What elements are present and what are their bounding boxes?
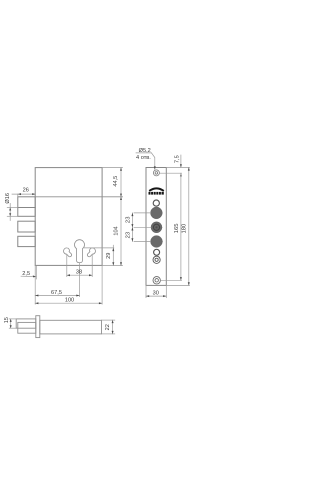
dimension 2,5 leader	[21, 266, 36, 279]
svg-text:26: 26	[23, 188, 29, 194]
svg-text:29: 29	[106, 253, 112, 259]
svg-text:23: 23	[126, 231, 132, 238]
body right edge lower extension line	[101, 266, 103, 305]
dimension 23 lower	[126, 227, 151, 241]
svg-text:15: 15	[4, 317, 10, 323]
dimension 38	[67, 255, 92, 277]
svg-text:23: 23	[126, 216, 132, 223]
faceplate big bolt circle upper	[151, 207, 163, 219]
dimension 23 upper	[126, 213, 151, 242]
faceplate small hole upper	[153, 200, 159, 206]
dimension 67,5	[35, 290, 79, 297]
top view bolt lower	[18, 322, 36, 333]
faceplate outline	[146, 168, 166, 286]
bolt B4	[18, 236, 35, 246]
body divider line	[35, 196, 122, 198]
top view case	[40, 320, 102, 334]
dimension Ø16	[5, 193, 18, 220]
svg-text:165: 165	[174, 223, 180, 234]
faceplate top screw hole	[153, 170, 159, 176]
bolt B2	[18, 208, 35, 217]
dimension 22	[102, 320, 115, 334]
svg-text:22: 22	[105, 324, 111, 330]
lock body outline	[35, 168, 102, 266]
keyhole center line	[79, 263, 81, 297]
dimension 30	[146, 285, 166, 297]
svg-text:67,5: 67,5	[51, 290, 62, 296]
body top edge extension line	[102, 167, 122, 169]
body left edge lower extension line	[34, 266, 36, 305]
svg-text:44,5: 44,5	[113, 176, 119, 187]
dimension 180	[166, 167, 190, 285]
svg-text:30: 30	[153, 290, 159, 296]
top view bolt upper	[16, 319, 36, 328]
faceplate double circle hole	[153, 256, 160, 263]
dimension 7,5	[160, 155, 190, 176]
keyhole	[75, 240, 85, 263]
svg-text:4 отв.: 4 отв.	[136, 155, 151, 161]
dimension 165	[161, 173, 182, 280]
svg-text:7,5: 7,5	[174, 155, 180, 163]
svg-text:104: 104	[113, 226, 119, 235]
label Ø5,2 4 отв. with leader	[136, 148, 156, 170]
left ear	[64, 248, 72, 257]
svg-text:38: 38	[76, 270, 82, 276]
body bottom edge extension line	[102, 265, 122, 267]
svg-text:2,5: 2,5	[22, 271, 30, 277]
faceplate big bolt circle lower	[151, 236, 163, 248]
bolt B1	[18, 197, 35, 208]
dimension 104	[113, 197, 122, 266]
right ear	[87, 248, 95, 257]
svg-text:100: 100	[65, 298, 74, 304]
faceplate small hole lower	[154, 249, 160, 255]
dimension 44,5	[113, 168, 122, 197]
faceplate cylinder circle	[151, 222, 162, 233]
svg-text:180: 180	[182, 223, 188, 234]
faceplate bottom screw hole	[153, 277, 160, 284]
bolt B3	[18, 221, 35, 232]
dimension 100	[35, 298, 102, 305]
svg-text:Ø16: Ø16	[5, 193, 11, 204]
top view faceplate	[36, 316, 40, 338]
logo	[149, 188, 164, 194]
dimension 15	[4, 317, 18, 328]
dimension 29	[84, 245, 114, 265]
dimension 26	[12, 188, 35, 197]
